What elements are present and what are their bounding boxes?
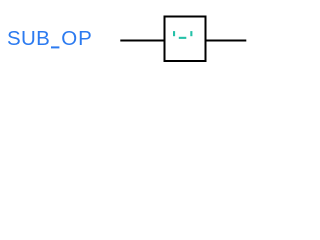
node SUB_OP label underscore [51,46,59,48]
svg-text:OP: OP [61,27,93,50]
wire right [206,40,247,42]
subtract icon quote-left [173,31,175,36]
subtract icon dash [179,37,187,39]
subtract icon quote-right [190,31,192,36]
wire left [120,40,164,42]
svg-text:SUB: SUB [7,27,50,50]
subtract cell U1 box [165,17,206,62]
